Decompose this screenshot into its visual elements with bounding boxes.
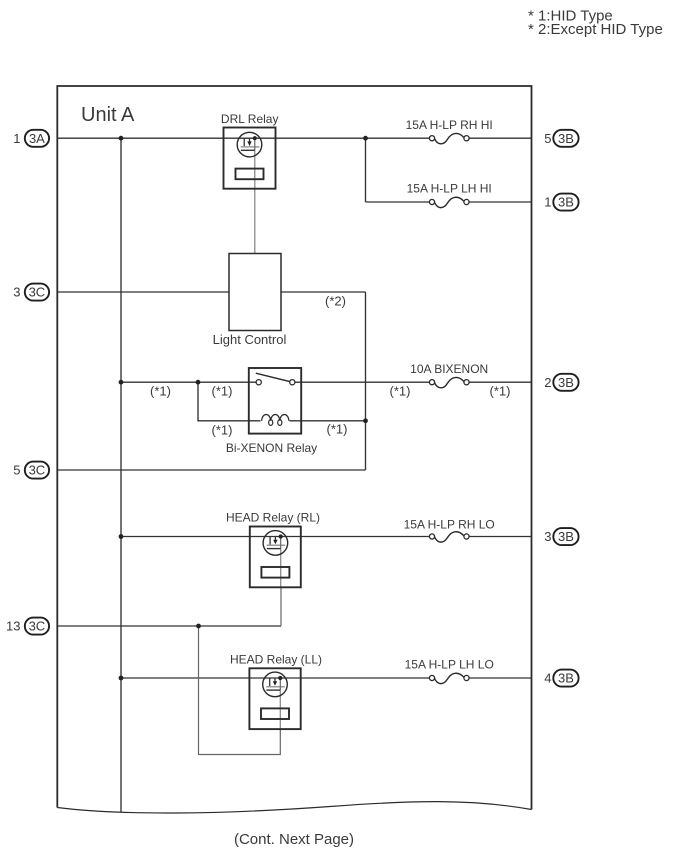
svg-text:10A BIXENON: 10A BIXENON [410,362,488,376]
svg-text:5: 5 [13,463,20,478]
svg-text:15A H-LP LH HI: 15A H-LP LH HI [407,182,492,196]
svg-text:(*1): (*1) [150,384,171,399]
Unit A enclosure box (open bottom) [57,86,531,810]
svg-text:2: 2 [544,375,551,390]
fuse F5 15A H-LP LH LO [429,673,469,683]
fuse F4 15A H-LP RH LO [429,532,469,542]
svg-text:3B: 3B [558,195,574,210]
wire: row8 fuse output to box right edge [467,677,532,679]
DRL Relay coil box [236,169,264,180]
wire: row4 switch output to BIXENON fuse [294,381,432,383]
svg-text:5: 5 [544,131,551,146]
fuse F1 15A H-LP RH HI [429,133,469,143]
wire: DRL relay gate lead down to Light Control [254,150,256,253]
wire: Light Control right pin to corner [281,291,366,293]
relay U3 HEAD Relay (LL) box [249,668,300,729]
wire: row1 fuse output to box right edge [467,137,532,139]
svg-text:15A H-LP LH LO: 15A H-LP LH LO [405,658,494,672]
wire: row5 5(3C) horizontal [57,469,365,471]
wire: HEAD LL coil return path down, left, and up to row7 junction [199,626,281,755]
junction at row1 / branch to row2 [363,136,368,141]
HEAD Relay (RL) coil box [261,567,289,578]
Bi-XENON relay coil [262,415,289,421]
svg-text:(Cont. Next Page): (Cont. Next Page) [234,831,354,848]
wire: row1 1(3A) bus y=138.2 from box left through DRL relay to fuse [57,137,432,139]
wire: coil branch down from row4 at x=198 [198,382,261,421]
svg-text:Light Control: Light Control [213,332,287,347]
svg-text:15A H-LP RH HI: 15A H-LP RH HI [406,118,493,132]
wire: row2 fuse output to box right edge [467,201,532,203]
svg-text:Bi-XENON Relay: Bi-XENON Relay [226,441,317,455]
wire: row2 to LH HI fuse [366,201,433,203]
DRL Relay MOSFET element [237,132,262,157]
svg-text:* 2:Except HID Type: * 2:Except HID Type [528,21,663,38]
wire: row4 Bi-XENON switch feed from left bus [121,381,257,383]
Bi-XENON switch contact left [256,380,261,385]
svg-text:3: 3 [544,529,551,544]
junction at coil row / (*2) vertical [363,418,368,423]
junction at row6 / left bus [119,534,124,539]
wire: (*2) vertical from Light Control row down to 5(3C) row [365,292,367,470]
svg-text:4: 4 [544,671,551,686]
fuse F2 15A H-LP LH HI [429,197,469,207]
wire: main left vertical bus x=121 [120,138,122,812]
relay U2 HEAD Relay (RL) box [250,527,301,588]
relay K1 Bi-XENON Relay box [249,368,301,434]
wire: row7 13(3C) horizontal [57,625,281,627]
HEAD Relay (RL) MOSFET element [263,531,288,556]
svg-text:3B: 3B [558,529,574,544]
svg-text:1: 1 [13,131,20,146]
svg-text:3B: 3B [558,671,574,686]
wire: row8 HEAD LL feed through relay to fuse [121,677,432,679]
svg-text:15A H-LP RH LO: 15A H-LP RH LO [404,518,495,532]
relay U1 DRL Relay box [224,128,276,189]
HEAD Relay (LL) MOSFET element [263,672,288,697]
svg-text:(*2): (*2) [325,294,346,309]
svg-text:DRL Relay: DRL Relay [221,112,279,126]
svg-text:3C: 3C [29,285,46,300]
svg-text:HEAD Relay (LL): HEAD Relay (LL) [230,652,322,666]
svg-text:1: 1 [544,195,551,210]
svg-text:3B: 3B [558,375,574,390]
junction at row4 / coil branch [196,380,201,385]
junction at row4 / left bus [119,380,124,385]
junction at row8 / left bus [119,676,124,681]
svg-text:3: 3 [13,285,20,300]
Bi-XENON switch blade [256,373,290,381]
wire: HEAD LL gate lead inside box [279,690,281,729]
junction at row7 / coil return [196,624,201,629]
svg-text:(*1): (*1) [212,423,233,438]
svg-text:(*1): (*1) [327,422,348,437]
svg-text:(*1): (*1) [490,384,511,399]
Bi-XENON switch contact right [290,380,295,385]
wire: row4 fuse output to box right edge [467,381,532,383]
Unit A torn-edge wavy bottom [57,802,531,813]
svg-text:Unit A: Unit A [81,104,135,126]
svg-text:HEAD Relay (RL): HEAD Relay (RL) [226,511,320,525]
wire: HEAD RL gate lead inside box [280,549,282,588]
svg-text:3C: 3C [29,619,46,634]
junction at row1 / left bus [119,136,124,141]
Light Control box [229,254,281,331]
svg-text:(*1): (*1) [212,384,233,399]
svg-text:3B: 3B [558,131,574,146]
svg-text:(*1): (*1) [390,384,411,399]
wire: row6 fuse output to box right edge [467,536,532,538]
HEAD Relay (LL) coil box [261,708,289,719]
wire: HEAD RL coil lead from box bottom down to row7 [280,587,282,626]
svg-text:3C: 3C [29,463,46,478]
wire: row6 HEAD RL feed through relay to fuse [121,536,432,538]
fuse F3 10A BIXENON [429,377,469,387]
wire: coil right terminal to (*2) vertical [290,420,366,422]
svg-text:3A: 3A [29,131,45,146]
svg-text:13: 13 [6,619,20,634]
wire: row3 3(3C) to Light Control left pin [57,291,229,293]
wire: branch from row1 down to row2 at x=365.5 [365,138,367,202]
